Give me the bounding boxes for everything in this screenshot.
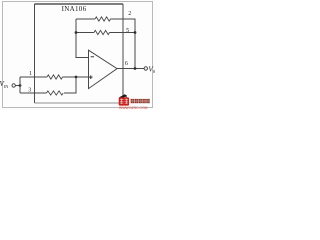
svg-text:3: 3	[28, 88, 31, 94]
wire: pin 5 row	[76, 32, 135, 34]
node: output junction	[134, 67, 137, 70]
op-amp A1	[89, 50, 118, 88]
svg-text:5: 5	[126, 28, 129, 34]
wire: feedback vertical to inverting input	[76, 19, 89, 58]
outer frame	[3, 2, 153, 108]
wire: pin 1 row	[20, 76, 89, 78]
node: pin5-output net junction	[134, 31, 137, 34]
svg-text:2: 2	[128, 11, 131, 17]
wire: output net vertical (pin2/pin5 to output)	[134, 19, 136, 69]
svg-text:WWW.DZSC.COM: WWW.DZSC.COM	[119, 106, 148, 110]
node: feedback / pin5 junction	[75, 31, 78, 34]
wire: input split vertical	[19, 77, 21, 93]
svg-text:6: 6	[125, 61, 128, 67]
output terminal VO	[144, 67, 147, 70]
node: noninverting input junction	[75, 76, 78, 79]
resistor (pin 1 row)	[47, 75, 63, 79]
input terminal VIN	[12, 84, 15, 87]
wire: VIN terminal to junction	[15, 85, 20, 87]
wire: feedback top row to pin 2	[76, 18, 136, 20]
svg-text:1: 1	[29, 71, 32, 77]
resistor (pin 3 row)	[47, 91, 64, 95]
resistor (pin 5 row)	[94, 30, 110, 34]
watermark	[119, 94, 150, 110]
wire: pin 3 row	[20, 77, 76, 93]
resistor (feedback, top row)	[95, 17, 111, 21]
svg-text:INA106: INA106	[62, 5, 87, 13]
wire: output pin 6 row	[117, 68, 144, 70]
svg-text:IN: IN	[4, 84, 8, 89]
IC box U1 INA106 outline	[35, 4, 124, 103]
node: input junction	[19, 84, 22, 87]
